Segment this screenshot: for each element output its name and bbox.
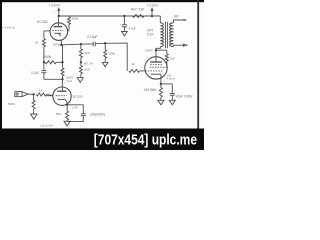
- junction B+ at C4: [123, 15, 125, 17]
- svg-text:100: 100: [170, 57, 175, 61]
- ground below R12: [158, 100, 164, 105]
- svg-text:4.5mA: 4.5mA: [167, 77, 175, 81]
- wire V2 cathode junction down: [62, 45, 64, 63]
- connector J1 RCA jack: [15, 92, 22, 97]
- svg-text:1k: 1k: [131, 62, 135, 66]
- wire B+ to primary: [159, 16, 161, 23]
- triode V2 grid: [52, 29, 63, 31]
- pentode V3 envelope: [145, 57, 167, 79]
- wire jack to junction: [28, 93, 33, 95]
- resistor R14 560: [66, 105, 68, 111]
- svg-text:1.5V: 1.5V: [71, 106, 78, 110]
- resistor R4 4K7: [133, 15, 145, 18]
- junction B+ at V2 anode: [58, 15, 60, 17]
- svg-text:0.1µF: 0.1µF: [31, 71, 39, 75]
- triode V1 cathode: [58, 98, 65, 100]
- junction cathode line: [60, 44, 62, 46]
- svg-text:Ua,u(=48: Ua,u(=48: [40, 124, 52, 128]
- svg-text:500k: 500k: [108, 51, 115, 55]
- resistor R5 500k: [45, 61, 56, 64]
- pentode V3 screen grid: [150, 66, 167, 68]
- svg-text:240 /5W: 240 /5W: [144, 88, 157, 92]
- svg-text:(~1.4Vrms: (~1.4Vrms: [2, 26, 15, 30]
- triode V2 envelope: [50, 23, 68, 41]
- triode V1 grid: [56, 95, 67, 97]
- terminal secondary bottom arrow: [183, 44, 186, 46]
- capacitor C1 100uF bypass: [67, 104, 83, 106]
- resistor R10 1k: [129, 69, 140, 72]
- resistor R12 240 5W: [160, 84, 162, 88]
- resistor R1 1k: [36, 93, 46, 96]
- wire cathode to coupling cap: [61, 43, 93, 46]
- junction grid leak tap: [104, 42, 106, 44]
- pentode V3 suppressor grid: [150, 64, 162, 66]
- capacitor C2 0.1uF: [43, 62, 45, 70]
- node +260V arrow: [57, 7, 60, 11]
- wire secondary top lead: [173, 20, 183, 23]
- resistor R2 100k: [68, 16, 70, 17]
- wire secondary bottom lead: [173, 45, 183, 46]
- triode V1 plate: [57, 90, 66, 92]
- svg-text:4K7 /1W: 4K7 /1W: [131, 8, 145, 12]
- node +230V arrow: [150, 7, 153, 11]
- resistor R13 500K shunt: [33, 94, 35, 100]
- pentode V3 cathode: [151, 73, 161, 75]
- wire V1 anode lead: [61, 79, 63, 87]
- svg-text:500K: 500K: [8, 102, 15, 106]
- svg-text:+260V: +260V: [49, 4, 61, 8]
- resistor R3 1K grid: [43, 31, 45, 39]
- resistor R9 500k grid leak: [104, 43, 106, 50]
- svg-text:(87V): (87V): [53, 42, 60, 46]
- svg-text:[707x454] uplc.me: [707x454] uplc.me: [94, 131, 198, 147]
- resistor R6: [62, 62, 64, 68]
- junction node B: [43, 61, 45, 63]
- triode V1 cathode lead: [66, 102, 68, 104]
- ground below R9: [102, 62, 108, 66]
- ground below R8: [77, 78, 83, 83]
- triode V2 cathode: [54, 32, 61, 34]
- wire R2 to V2 plate: [68, 24, 70, 31]
- svg-text:560: 560: [56, 112, 61, 116]
- resistor R8 560: [79, 65, 82, 74]
- resistor R7 620: [80, 44, 82, 49]
- svg-text:0.15µF: 0.15µF: [87, 35, 98, 39]
- junction V1 cathode: [66, 104, 68, 106]
- transformer T1 core: [165, 22, 167, 48]
- junction node C: [61, 61, 63, 63]
- svg-text:ECC82: ECC82: [37, 20, 48, 24]
- triode V2 cathode lead: [60, 40, 62, 45]
- capacitor C5 47uF bypass: [161, 83, 172, 85]
- wire primary to anode node: [156, 47, 160, 51]
- ground below R14: [64, 121, 70, 126]
- top black bar: [0, 0, 204, 2]
- watermark text: [94, 131, 198, 147]
- wire anode to screen resistor: [156, 49, 167, 51]
- svg-text:47µF: 47µF: [129, 26, 136, 30]
- svg-text:+230V: +230V: [147, 3, 159, 7]
- right page border: [197, 0, 199, 129]
- junction input node: [32, 93, 34, 95]
- resistor R11 100 screen: [166, 50, 168, 54]
- capacitor C3 0.15uF: [92, 42, 94, 47]
- svg-text:47µF /100V: 47µF /100V: [176, 94, 193, 98]
- watermark bottom strip: [0, 129, 204, 151]
- junction B+ at +230V: [151, 15, 153, 17]
- svg-text:4mA: 4mA: [66, 79, 72, 83]
- junction signal line tap: [80, 43, 82, 45]
- junction anode node V1: [61, 78, 63, 80]
- capacitor C4 47uF: [123, 16, 125, 25]
- triode V1 envelope: [53, 87, 71, 105]
- wire node B cap to anode node: [44, 78, 63, 80]
- svg-text:1k: 1k: [39, 88, 43, 92]
- svg-text:8Ω: 8Ω: [174, 15, 179, 19]
- svg-text:ECC83: ECC83: [73, 94, 83, 98]
- svg-text:100µF(6V): 100µF(6V): [90, 113, 105, 117]
- svg-text:100k: 100k: [72, 16, 79, 20]
- wire cap to grid corner: [96, 43, 128, 71]
- transformer T1 primary: [160, 23, 163, 47]
- svg-text:(246V: (246V: [145, 49, 153, 53]
- transformer T1 secondary: [170, 23, 174, 47]
- pentode V3 control grid: [145, 70, 163, 72]
- pentode V3 plate: [150, 61, 162, 63]
- terminal secondary top arrow: [184, 19, 187, 21]
- junction node D: [80, 61, 82, 63]
- junction V3 cathode: [160, 83, 162, 85]
- triode V2 plate: [54, 26, 63, 28]
- svg-text:(85, 9V: (85, 9V: [84, 62, 94, 66]
- left black bar: [0, 0, 2, 150]
- wire B+ rail: [59, 15, 161, 17]
- svg-text:560: 560: [84, 67, 89, 71]
- ground below C5: [169, 100, 175, 105]
- ground below R13: [31, 114, 37, 119]
- svg-text:5.1K: 5.1K: [147, 33, 154, 37]
- wire R3 to node B: [43, 47, 45, 63]
- svg-text:500k: 500k: [44, 55, 51, 59]
- junction V3 anode node: [155, 49, 157, 51]
- ground below C4: [122, 32, 128, 36]
- svg-text:620: 620: [84, 51, 89, 55]
